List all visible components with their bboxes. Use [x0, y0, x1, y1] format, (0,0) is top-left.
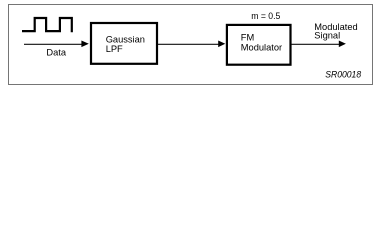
svg-text:Gaussian: Gaussian — [106, 34, 145, 44]
svg-text:Modulator: Modulator — [241, 42, 282, 52]
svg-text:Signal: Signal — [314, 30, 340, 40]
block U1 Gaussian LPF — [91, 23, 157, 64]
label Modulated Signal — [314, 22, 357, 40]
block U2 FM Modulator — [227, 25, 291, 65]
svg-text:Data: Data — [46, 47, 66, 57]
wire: LPF output to FM modulator — [158, 41, 225, 48]
wire: data input arrow — [24, 41, 89, 48]
svg-text:SR00018: SR00018 — [325, 69, 362, 79]
wire: modulated signal output arrow — [292, 41, 346, 48]
data waveform symbol — [22, 18, 72, 32]
svg-text:LPF: LPF — [106, 44, 123, 54]
svg-text:FM: FM — [241, 33, 254, 43]
svg-text:m = 0.5: m = 0.5 — [251, 11, 280, 21]
